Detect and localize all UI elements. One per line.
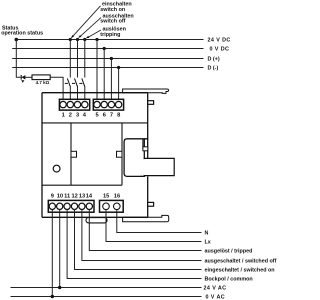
- svg-text:operation status: operation status: [1, 31, 43, 37]
- switch S2 (switch off contact): [72, 78, 78, 101]
- operating handle (side view): [124, 139, 174, 177]
- svg-text:24 V AC: 24 V AC: [204, 286, 227, 292]
- top mounting flange: [123, 89, 169, 93]
- wire: node D down to terminal 5: [96, 40, 98, 102]
- wire: terminal 10 to 24 V AC line: [59, 209, 61, 287]
- svg-text:Lx: Lx: [205, 240, 211, 246]
- svg-text:12: 12: [72, 193, 78, 199]
- switch S3 (tripping contact): [79, 78, 85, 101]
- wire: diode to resistor: [25, 76, 32, 78]
- wire: terminal 14 to ausgeloest line: [89, 209, 201, 250]
- node D: terminal 5 tap on bus 1: [95, 38, 98, 41]
- svg-text:eingeschaltet / switched on: eingeschaltet / switched on: [205, 268, 275, 274]
- divider: vertical left: [70, 123, 72, 185]
- wire: terminal 11 to Bockpol line: [67, 209, 201, 278]
- divider: vertical right: [121, 123, 123, 185]
- wire: terminal 12 to eingeschaltet line: [75, 209, 202, 269]
- wire: 24 V AC supply line: [11, 287, 202, 289]
- svg-text:0 V AC: 0 V AC: [206, 295, 226, 300]
- node A: switch-on tap: [69, 38, 72, 41]
- svg-text:D (-): D (-): [208, 66, 219, 72]
- svg-text:14: 14: [86, 193, 93, 199]
- svg-text:D (+): D (+): [208, 57, 220, 63]
- svg-text:2: 2: [69, 113, 72, 119]
- wire: bus 2 down to terminal 6: [103, 49, 105, 102]
- svg-text:0 V DC: 0 V DC: [210, 47, 230, 53]
- svg-text:Bockpol / common: Bockpol / common: [205, 277, 253, 283]
- svg-text:ausgeschaltet / switched off: ausgeschaltet / switched off: [205, 259, 277, 265]
- wire: node C down to switch S3: [84, 40, 86, 78]
- label: einschalten / switch on: [100, 1, 131, 12]
- node: terminal 6 tap on bus 2: [103, 47, 106, 50]
- DIN rail clip (bottom): [86, 218, 107, 223]
- arrow: einschalten to node A: [71, 6, 101, 38]
- divider: top section: [42, 122, 148, 124]
- indicator circle on device: [53, 165, 60, 172]
- tab on right divider: [117, 151, 123, 157]
- svg-text:9: 9: [51, 193, 54, 199]
- svg-text:N: N: [205, 231, 209, 237]
- pin numbers 5-8: [96, 113, 121, 119]
- terminal block X1 (1-4): [59, 99, 89, 110]
- bottom mounting flange: [123, 215, 169, 221]
- node: terminal 8 tap on bus 4: [117, 66, 120, 69]
- wire: status branch down to diode: [16, 40, 20, 78]
- wire: bus 4 down to terminal 8: [118, 68, 120, 102]
- node: terminal 9 junction on 0 V AC: [51, 295, 54, 298]
- svg-text:24 V DC: 24 V DC: [208, 38, 231, 44]
- wire: 0 V AC supply line: [11, 296, 202, 298]
- svg-text:4.7 kΩ: 4.7 kΩ: [36, 80, 50, 85]
- svg-text:switch off: switch off: [100, 19, 125, 25]
- svg-text:10: 10: [57, 193, 63, 199]
- svg-text:switch on: switch on: [100, 7, 125, 13]
- arrow: ausschalten to node B: [78, 18, 101, 38]
- pin numbers 9-14: [51, 193, 93, 199]
- node C: tripping tap: [83, 38, 86, 41]
- terminal block X4 (15-16): [100, 200, 124, 212]
- divider: bottom section: [42, 184, 122, 186]
- pin numbers 15-16: [103, 193, 120, 199]
- device body outline: [42, 93, 148, 218]
- terminal block X2 (5-8): [93, 99, 123, 110]
- svg-text:13: 13: [79, 193, 85, 199]
- wire: terminal 9 to 0 V AC line: [51, 209, 53, 296]
- wire: bus line 2 (0 V DC): [12, 48, 203, 50]
- clip tab lower right edge: [148, 202, 154, 206]
- switch S1 (switch on contact): [65, 78, 71, 101]
- node: terminal 10 junction on 24 V AC: [58, 286, 61, 289]
- svg-text:5: 5: [96, 113, 99, 119]
- svg-text:ausgelöst / tripped: ausgelöst / tripped: [205, 249, 253, 255]
- svg-text:7: 7: [110, 113, 113, 119]
- clip tab upper right edge: [148, 101, 154, 105]
- wire: terminal 13 to ausgeschaltet line: [82, 209, 202, 260]
- node: status tap on bus 1: [14, 38, 18, 42]
- wire: resistor to terminal 1: [50, 77, 63, 101]
- svg-text:16: 16: [114, 193, 120, 199]
- svg-text:8: 8: [117, 113, 120, 119]
- wire: bus line 3 (D+): [12, 58, 203, 60]
- pin numbers 1-4: [62, 113, 87, 119]
- label: ausschalten / switch off: [100, 13, 133, 24]
- node B: switch-off tap: [76, 38, 79, 41]
- svg-text:tripping: tripping: [100, 32, 120, 38]
- tab on left divider: [71, 151, 77, 157]
- wire: bus line 4 (D-): [12, 67, 203, 69]
- terminal block X3 (9-14): [48, 200, 94, 212]
- wire: bus 3 down to terminal 7: [110, 59, 112, 102]
- wire: node A down to switch S1: [69, 40, 71, 78]
- svg-text:6: 6: [103, 113, 106, 119]
- wire: node B down to switch S2: [77, 40, 79, 78]
- wire: bus line 1 (24 V DC): [16, 39, 203, 41]
- wire: terminal 15 to Lx line: [106, 210, 202, 242]
- svg-text:15: 15: [103, 193, 109, 199]
- diode V1: [21, 75, 25, 83]
- label: auslösen / tripping: [100, 27, 126, 38]
- svg-text:11: 11: [64, 193, 70, 199]
- wire: terminal 16 to N line: [117, 210, 202, 233]
- label: Status / operation status: [1, 26, 43, 37]
- node: terminal 7 tap on bus 3: [110, 57, 113, 60]
- resistor 4.7 kOhm: [32, 75, 50, 85]
- svg-text:1: 1: [62, 113, 65, 119]
- arrow: auslösen to node C: [86, 30, 101, 38]
- svg-text:3: 3: [76, 113, 79, 119]
